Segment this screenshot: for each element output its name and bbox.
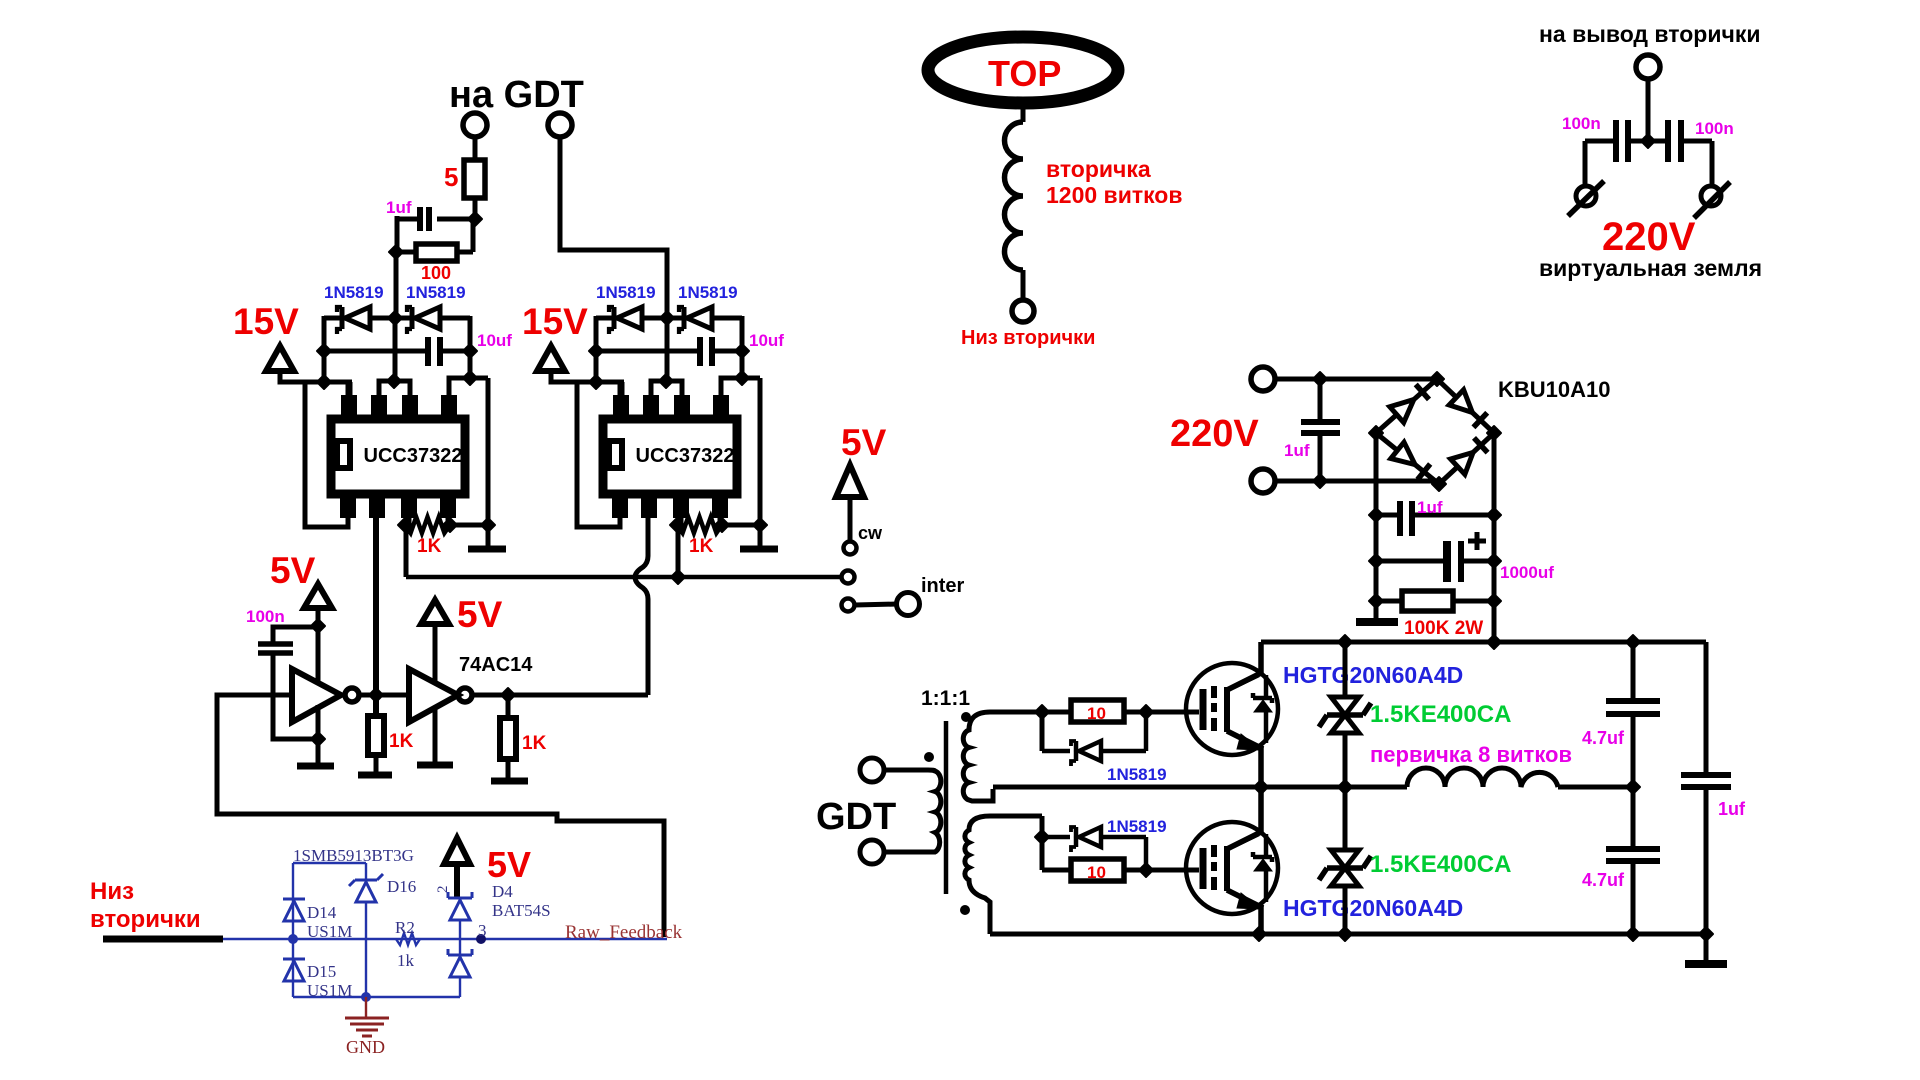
ground GND (maroon) (365, 997, 367, 1017)
wire: blue box left (292, 863, 294, 997)
resistor 100K 2W (1369, 594, 1383, 608)
resistor R2 1k (zigzag) (396, 933, 420, 945)
svg-text:первичка 8 витков: первичка 8 витков (1370, 742, 1572, 767)
wire: left column (322, 316, 327, 382)
wire: VDD pin rail to pin8 (575, 380, 624, 385)
svg-text:15V: 15V (522, 301, 588, 342)
svg-text:5V: 5V (841, 422, 887, 463)
svg-text:inter: inter (921, 575, 965, 597)
TVS 1.5KE400CA (bottom) (1343, 787, 1348, 850)
svg-text:1.5KE400CA: 1.5KE400CA (1370, 701, 1511, 728)
svg-text:US1M: US1M (307, 981, 352, 1000)
svg-text:3: 3 (478, 921, 487, 940)
terminal: secondary bottom (1012, 300, 1034, 322)
wire: inv2 out (471, 693, 648, 698)
wire AC top (1275, 377, 1437, 382)
capacitor 1uf output (1704, 642, 1709, 773)
switch contact inter + lever (842, 599, 855, 612)
IC U1 UCC37322 gate driver (603, 419, 737, 494)
GDT secondary 1 (top) (963, 712, 1042, 801)
wire: phase rail (993, 785, 1407, 790)
svg-text:D16: D16 (387, 877, 416, 896)
svg-text:1uf: 1uf (1284, 441, 1310, 460)
switch contact common (842, 571, 855, 584)
bridge diode D-a (1390, 400, 1414, 423)
ground (358, 772, 392, 779)
node: right col joints (735, 344, 749, 358)
svg-text:100: 100 (421, 263, 451, 283)
secondary winding (1021, 102, 1026, 122)
node: right col joints (463, 344, 477, 358)
svg-text:10uf: 10uf (477, 331, 512, 350)
wire: pin5 rail to right rail (449, 378, 488, 395)
node: left col joints (589, 344, 603, 358)
capacitor 1uf (437, 217, 475, 222)
diode 1N5819 bypass bottom (1042, 835, 1070, 840)
wire: right column (740, 316, 745, 378)
wire: right GDT terminal to driver B input (560, 137, 667, 316)
svg-text:UCC37322: UCC37322 (364, 445, 463, 467)
pins bottom (340, 497, 356, 518)
svg-text:74AC14: 74AC14 (459, 654, 533, 676)
svg-text:HGTG20N60A4D: HGTG20N60A4D (1283, 895, 1463, 921)
ground (468, 546, 506, 553)
svg-text:вторички: вторички (90, 906, 201, 933)
wire: left loop rail to pin1 (305, 380, 348, 527)
TVS 1.5KE400CA (top) (1343, 642, 1348, 697)
terminal: secondary output (1636, 55, 1660, 79)
resistor 1K (zigzag) (407, 515, 412, 525)
inverter 74AC14 #2 (409, 669, 458, 722)
svg-text:100n: 100n (1695, 119, 1734, 138)
wire: VDD diode rail (324, 316, 342, 321)
svg-text:1N5819: 1N5819 (406, 283, 466, 302)
resistor 1K (zigzag) (679, 515, 684, 525)
diode 1N5819 (right, on VDD rail) (410, 307, 415, 329)
svg-text:100K 2W: 100K 2W (1404, 618, 1483, 639)
svg-text:UCC37322: UCC37322 (636, 445, 735, 467)
svg-text:10: 10 (1087, 704, 1106, 723)
wire (473, 137, 478, 160)
pins top (613, 395, 629, 416)
svg-text:220V: 220V (1170, 413, 1259, 455)
svg-text:D15: D15 (307, 962, 336, 981)
svg-text:1K: 1K (417, 536, 442, 557)
wire: input to driver A (394, 252, 399, 318)
wire: driver B 1K left drop (676, 526, 681, 577)
wire DC- rail (1374, 433, 1379, 622)
terminal (to GDT) left (463, 113, 487, 137)
svg-text:GND: GND (346, 1037, 385, 1057)
svg-text:1uf: 1uf (1718, 799, 1746, 819)
wire AC bottom (1275, 479, 1441, 484)
capacitor 4.7uf top (1631, 642, 1636, 699)
svg-text:4.7uf: 4.7uf (1582, 870, 1625, 890)
driver block B (right UCC37322 stage) (575, 283, 784, 557)
wire row1 (1035, 705, 1049, 719)
resistor 10 (gate, top) (1042, 710, 1071, 715)
wire: input U-link pins 6,7 (379, 381, 410, 395)
svg-text:1N5819: 1N5819 (596, 283, 656, 302)
svg-text:100n: 100n (246, 607, 285, 626)
ground (297, 763, 334, 770)
svg-text:10: 10 (1087, 863, 1106, 882)
svg-text:1N5819: 1N5819 (1107, 817, 1167, 836)
svg-text:2: 2 (435, 886, 451, 894)
svg-text:Низ: Низ (90, 878, 134, 905)
wire DC+ rail (1492, 433, 1497, 642)
inverter 74AC14 #1 (292, 669, 341, 722)
svg-text:1N5819: 1N5819 (324, 283, 384, 302)
ground (output) (1704, 934, 1709, 963)
diode 1N5819 bypass top (1040, 712, 1045, 751)
resistor 5 (464, 160, 485, 198)
wire: driver A pin2 down to inverter node (373, 515, 379, 716)
wire: input U-link pins 6,7 (651, 381, 682, 395)
svg-text:D4: D4 (492, 882, 513, 901)
GDT core (944, 721, 949, 894)
toroid TOP (928, 37, 1118, 103)
terminal GDT in bottom (860, 840, 884, 864)
svg-text:1K: 1K (522, 733, 547, 754)
wire: inv1 out (358, 693, 376, 698)
diode 1N5819 (right, on VDD rail) (682, 307, 687, 329)
node: left col joints (317, 344, 331, 358)
svg-text:BAT54S: BAT54S (492, 901, 551, 920)
ground (491, 778, 528, 785)
diode D14 US1M (283, 898, 305, 901)
bridge diode D-b (1449, 390, 1472, 413)
svg-text:Низ вторички: Низ вторички (961, 327, 1095, 349)
svg-text:4.7uf: 4.7uf (1582, 728, 1625, 748)
svg-text:10uf: 10uf (749, 331, 784, 350)
svg-text:R2: R2 (395, 918, 415, 937)
svg-text:1SMB5913BT3G: 1SMB5913BT3G (293, 846, 414, 865)
svg-text:1:1:1: 1:1:1 (921, 687, 970, 710)
GDT secondary 2 (bottom) (965, 816, 1042, 934)
wire: right column (468, 316, 473, 378)
wire: blue feedback line (223, 938, 667, 940)
svg-text:KBU10A10: KBU10A10 (1498, 377, 1611, 402)
terminal 220V neutral (1251, 469, 1275, 493)
svg-text:220V: 220V (1602, 215, 1696, 259)
svg-text:Raw_Feedback: Raw_Feedback (565, 922, 683, 943)
wire: left column (594, 316, 599, 382)
ground (740, 546, 778, 553)
svg-text:1K: 1K (389, 731, 414, 752)
wire: right rail down (758, 378, 763, 549)
bridge diode D-d (1451, 452, 1474, 474)
svg-text:5V: 5V (270, 550, 316, 591)
capacitor 1uf AC (1313, 372, 1327, 386)
capacitor 100n (right) (1648, 139, 1666, 144)
wire + trimmer to earth (right) (1710, 141, 1715, 186)
capacitor 10uf bootstrap (324, 349, 426, 354)
diode D15 US1M (283, 958, 305, 961)
capacitor 100n (273, 627, 318, 643)
ground (DC-) (1356, 618, 1398, 626)
svg-text:1000uf: 1000uf (1500, 563, 1554, 582)
wire: long enable line to switch (406, 575, 841, 580)
node: primary phase dot (925, 753, 934, 762)
svg-text:TOP: TOP (988, 53, 1061, 94)
wire: left feedback rail (217, 695, 664, 937)
wire: inv1->inv2 (376, 693, 409, 698)
wire: center input vertical (665, 318, 670, 381)
pins top (341, 395, 357, 416)
svg-text:вторичка: вторичка (1046, 156, 1151, 182)
wire: emitter/bottom rail (990, 932, 1706, 937)
wire: VDD pin rail to pin8 (303, 380, 352, 385)
wire: DC+ bus (1261, 640, 1706, 645)
resistor 1K pulldown #2 (506, 695, 511, 718)
resistor 100 (416, 244, 457, 261)
diode 1N5819 (left, on VDD rail) (612, 307, 617, 329)
svg-text:1uf: 1uf (1417, 498, 1443, 517)
svg-text:на вывод вторички: на вывод вторички (1539, 21, 1760, 47)
diode 1N5819 (left, on VDD rail) (340, 307, 345, 329)
inductor: primary 8 turns (1407, 768, 1558, 787)
svg-text:HGTG20N60A4D: HGTG20N60A4D (1283, 662, 1463, 688)
svg-text:1uf: 1uf (386, 198, 412, 217)
svg-text:5V: 5V (457, 594, 503, 635)
transistor Q2 HGTG20N60A4D (bottom IGBT) (1186, 822, 1278, 914)
wire: VDD diode rail (596, 316, 614, 321)
svg-text:100n: 100n (1562, 114, 1601, 133)
GDT primary winding (884, 768, 928, 773)
wire: thick stub (bottom of secondary) (103, 936, 223, 943)
driver block A (left UCC37322 stage) (303, 283, 512, 557)
wire + trimmer to earth (left) (1583, 141, 1588, 186)
terminal GDT in top (860, 758, 884, 782)
capacitor 100n (left) (1630, 139, 1648, 144)
transistor Q1 HGTG20N60A4D (top IGBT) (1186, 663, 1278, 755)
wire (473, 198, 478, 222)
resistor 1K pulldown #1 (368, 716, 384, 755)
svg-text:1.5KE400CA: 1.5KE400CA (1370, 851, 1511, 878)
ground (417, 762, 453, 769)
switch contact cw (844, 542, 857, 555)
wire: pin5 rail to right rail (721, 378, 760, 395)
svg-text:15V: 15V (233, 301, 299, 342)
svg-text:1N5819: 1N5819 (678, 283, 738, 302)
wire: left loop rail to pin1 (577, 380, 620, 527)
svg-text:GDT: GDT (816, 796, 896, 838)
dual diode D4 BAT54S (447, 892, 450, 898)
wire: center input vertical (393, 318, 398, 381)
capacitor 1uf DC (1369, 508, 1383, 522)
wire inverter1 gnd (316, 705, 321, 766)
pins bottom (612, 497, 628, 518)
svg-text:1k: 1k (397, 951, 415, 970)
bridge diode D-c (1391, 442, 1415, 464)
wire row2 (1035, 830, 1049, 844)
wire (395, 216, 400, 252)
resistor 10 (gate, bottom) (1042, 868, 1071, 873)
capacitor 10uf bootstrap (596, 349, 698, 354)
svg-text:на GDT: на GDT (449, 74, 584, 116)
zener D16 1SMB5913BT3G (365, 863, 367, 880)
IC U1 UCC37322 gate driver (331, 419, 465, 494)
svg-text:D14: D14 (307, 903, 337, 922)
svg-text:US1M: US1M (307, 922, 352, 941)
terminal (to GDT) right (548, 113, 572, 137)
terminal 220V line (1251, 367, 1275, 391)
svg-text:5: 5 (444, 162, 458, 192)
svg-text:cw: cw (858, 523, 883, 543)
svg-text:1200 витков: 1200 витков (1046, 182, 1183, 208)
wire: driver A 1K left drop (404, 525, 409, 577)
svg-text:1N5819: 1N5819 (1107, 765, 1167, 784)
svg-text:5V: 5V (487, 844, 531, 885)
wire: driver B pin2 to inverter output (with hop) (635, 515, 648, 695)
svg-text:виртуальная земля: виртуальная земля (1539, 255, 1762, 281)
capacitor 1000uf electrolytic (1369, 554, 1383, 568)
capacitor 4.7uf bottom (1631, 787, 1636, 847)
svg-text:1K: 1K (689, 536, 714, 557)
wire: right rail down (486, 378, 491, 549)
